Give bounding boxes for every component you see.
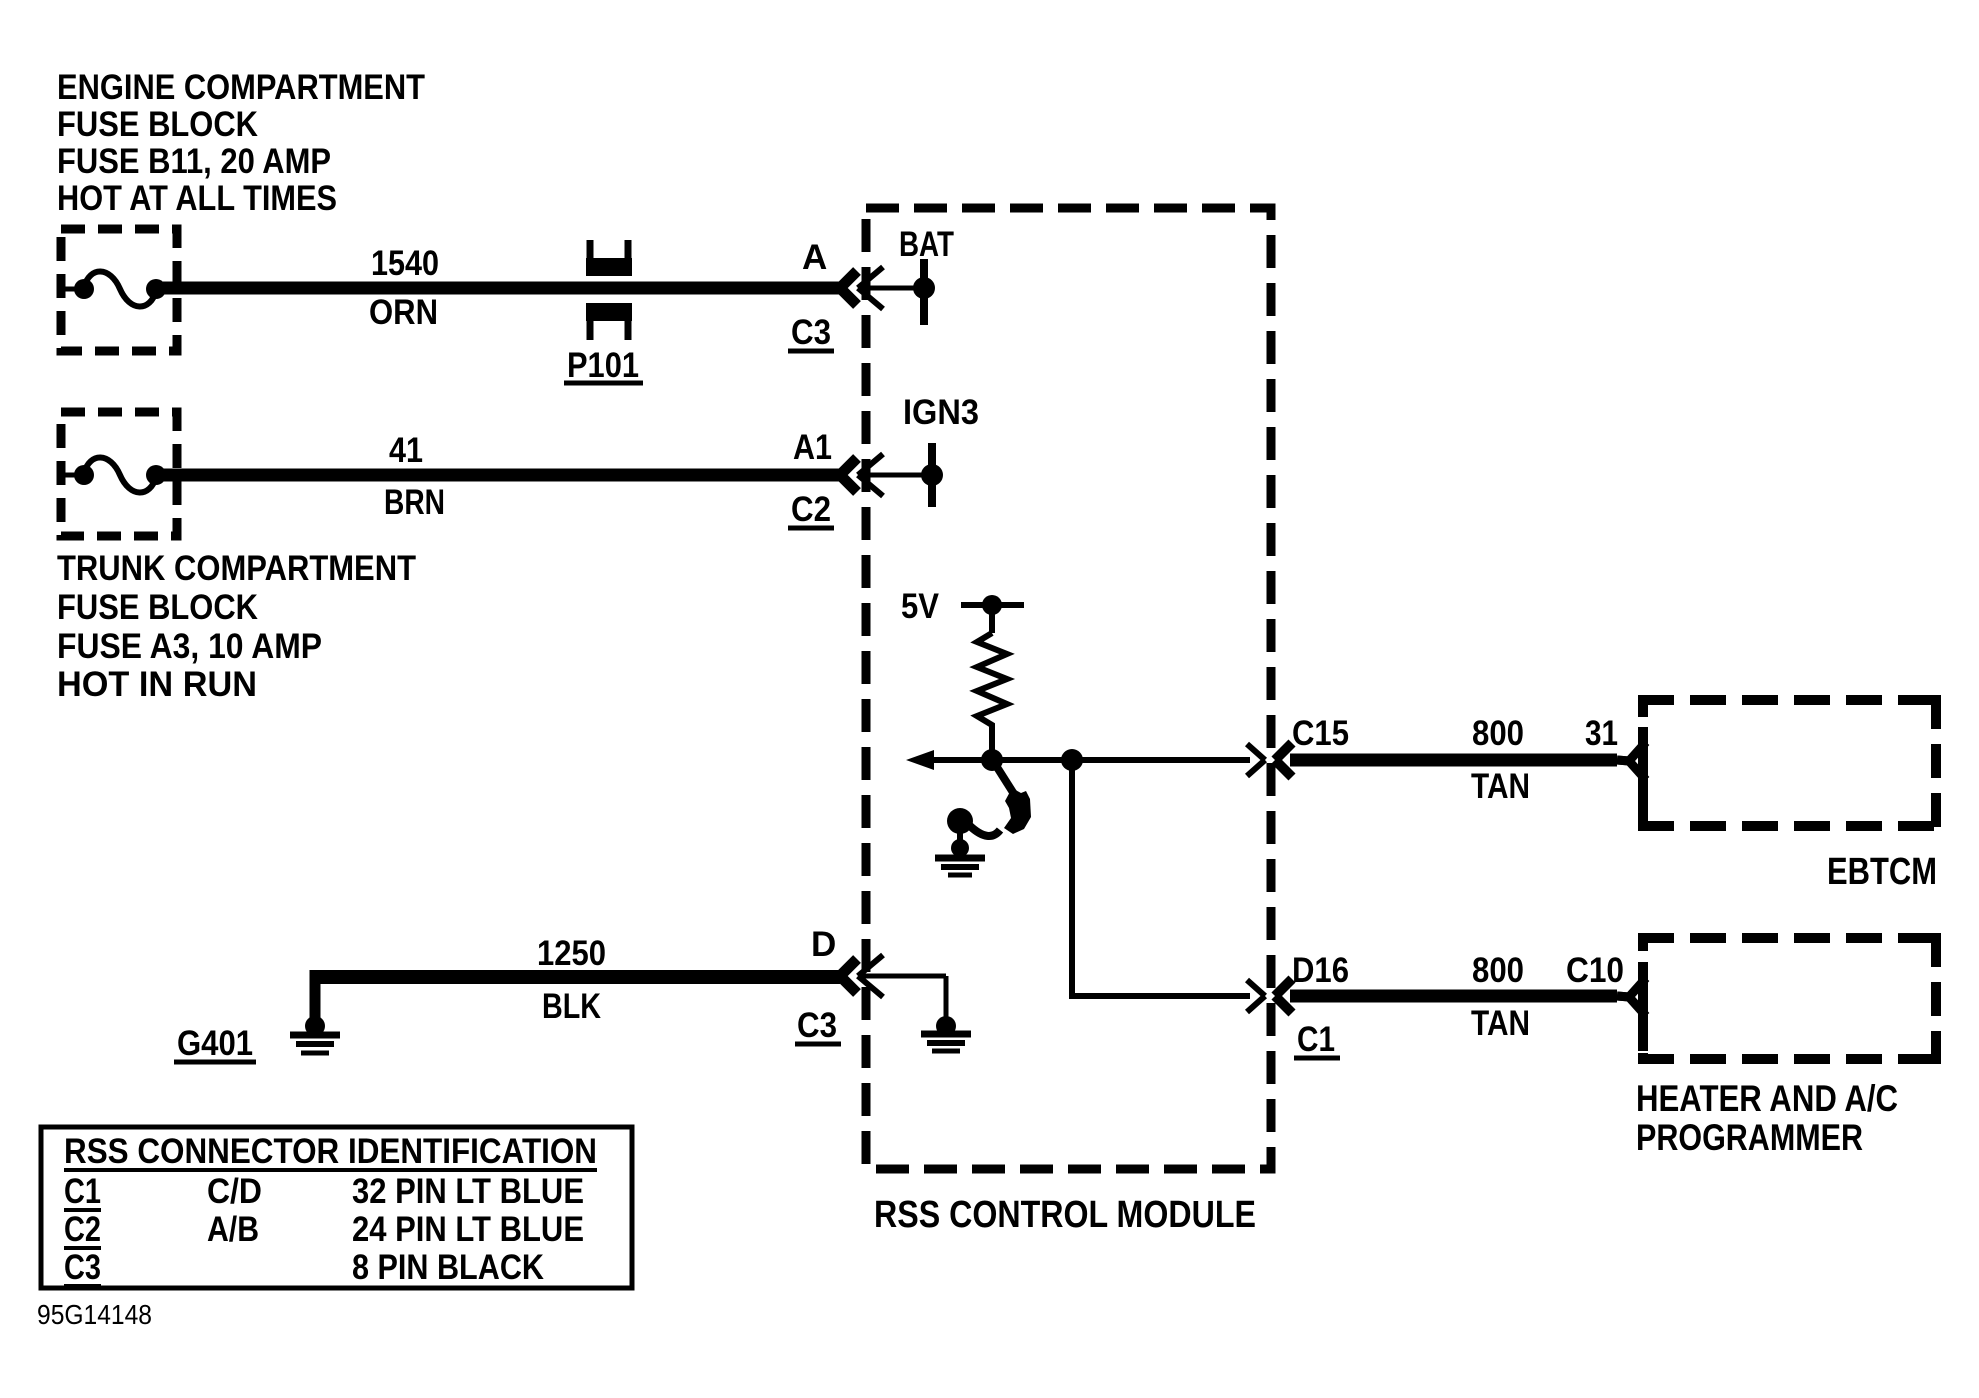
svg-text:41: 41 xyxy=(389,431,423,470)
svg-text:P101: P101 xyxy=(567,346,639,385)
svg-text:BLK: BLK xyxy=(542,987,601,1026)
note: engine compartment fuse text xyxy=(57,68,425,218)
wire 800 TAN (to EBTCM) xyxy=(1290,754,1617,767)
connector pin C15 at module xyxy=(1247,743,1292,777)
heater and A/C programmer dashed box xyxy=(1638,933,1941,1064)
svg-text:IGN3: IGN3 xyxy=(903,393,979,432)
svg-text:PROGRAMMER: PROGRAMMER xyxy=(1636,1117,1863,1158)
svg-text:TRUNK COMPARTMENT: TRUNK COMPARTMENT xyxy=(57,549,416,588)
resistor (pull-up) xyxy=(977,605,1007,760)
fuse block B11 dashed box xyxy=(61,229,177,351)
svg-text:ENGINE COMPARTMENT: ENGINE COMPARTMENT xyxy=(57,68,425,107)
node IGN3 xyxy=(921,443,943,507)
svg-text:A: A xyxy=(802,238,827,277)
wire 1540 ORN xyxy=(163,282,840,295)
svg-text:C/D: C/D xyxy=(207,1172,262,1211)
fuse block A3 dashed box xyxy=(61,412,177,536)
svg-text:FUSE A3, 10 AMP: FUSE A3, 10 AMP xyxy=(57,627,322,666)
svg-text:BRN: BRN xyxy=(384,483,445,522)
note: trunk compartment fuse text xyxy=(57,549,416,704)
svg-text:32 PIN LT BLUE: 32 PIN LT BLUE xyxy=(352,1172,584,1211)
ground G401 xyxy=(290,1016,340,1053)
svg-text:C3: C3 xyxy=(64,1248,101,1287)
svg-text:1540: 1540 xyxy=(371,244,439,283)
wire 800 TAN (to programmer) xyxy=(1290,990,1617,1003)
RSS control module dashed box xyxy=(866,208,1271,1169)
svg-text:HOT AT ALL TIMES: HOT AT ALL TIMES xyxy=(57,179,337,218)
svg-text:TAN: TAN xyxy=(1471,1004,1530,1043)
svg-text:C2: C2 xyxy=(64,1210,101,1249)
svg-text:800: 800 xyxy=(1472,714,1524,753)
connector pin A1 at module xyxy=(840,454,932,496)
svg-text:D16: D16 xyxy=(1292,951,1349,990)
sensor wiper arrow xyxy=(995,764,1031,834)
svg-text:BAT: BAT xyxy=(899,225,954,264)
signal line with left arrow xyxy=(906,750,1250,770)
EBTCM dashed box xyxy=(1638,695,1941,831)
RSS connector identification table xyxy=(41,1127,632,1288)
fuse A3 symbol xyxy=(61,457,166,492)
connector pin A at module xyxy=(840,267,924,309)
wiper contact curl xyxy=(947,808,1000,836)
connector P101 symbol xyxy=(586,240,632,340)
svg-text:5V: 5V xyxy=(901,587,940,626)
wire 41 BRN xyxy=(163,469,840,482)
svg-text:800: 800 xyxy=(1472,951,1524,990)
svg-text:C3: C3 xyxy=(791,313,831,352)
ground (sensor wiper) xyxy=(935,832,985,875)
svg-text:C3: C3 xyxy=(797,1006,837,1045)
svg-text:FUSE BLOCK: FUSE BLOCK xyxy=(57,105,258,144)
svg-text:C15: C15 xyxy=(1292,714,1349,753)
svg-text:TAN: TAN xyxy=(1471,767,1530,806)
svg-text:C1: C1 xyxy=(64,1172,101,1211)
svg-text:C2: C2 xyxy=(791,490,831,529)
node BAT xyxy=(913,259,935,325)
svg-text:A1: A1 xyxy=(793,428,832,467)
svg-text:A/B: A/B xyxy=(207,1210,259,1249)
svg-text:1250: 1250 xyxy=(537,934,606,973)
connector pin D at module xyxy=(840,955,946,997)
svg-text:8 PIN BLACK: 8 PIN BLACK xyxy=(352,1248,544,1287)
svg-text:HOT IN RUN: HOT IN RUN xyxy=(57,665,257,704)
svg-text:C1: C1 xyxy=(1297,1020,1335,1059)
svg-text:C10: C10 xyxy=(1566,951,1624,990)
wire 1250 BLK xyxy=(315,970,840,1018)
svg-text:RSS CONNECTOR IDENTIFICATION: RSS CONNECTOR IDENTIFICATION xyxy=(64,1132,597,1171)
node 5V xyxy=(961,595,1024,615)
svg-text:D: D xyxy=(811,925,836,964)
svg-text:EBTCM: EBTCM xyxy=(1827,851,1937,893)
svg-text:G401: G401 xyxy=(177,1024,253,1063)
connector pin D16 at module xyxy=(1247,979,1292,1013)
junction node at resistor xyxy=(981,749,1003,771)
svg-text:31: 31 xyxy=(1585,714,1618,753)
svg-text:95G14148: 95G14148 xyxy=(37,1299,152,1330)
label HEATER AND A/C PROGRAMMER xyxy=(1636,1078,1898,1158)
svg-text:RSS CONTROL MODULE: RSS CONTROL MODULE xyxy=(874,1194,1256,1236)
svg-text:24 PIN LT BLUE: 24 PIN LT BLUE xyxy=(352,1210,584,1249)
svg-text:ORN: ORN xyxy=(369,293,438,332)
fuse B11 symbol xyxy=(61,271,166,306)
connector pin 31 at EBTCM xyxy=(1617,727,1646,816)
svg-text:FUSE BLOCK: FUSE BLOCK xyxy=(57,588,258,627)
svg-text:FUSE B11, 20 AMP: FUSE B11, 20 AMP xyxy=(57,142,331,181)
branch wire to D16 xyxy=(1072,760,1250,996)
connector pin C10 at programmer xyxy=(1617,962,1646,1051)
svg-text:HEATER AND A/C: HEATER AND A/C xyxy=(1636,1078,1898,1119)
internal ground at pin D xyxy=(921,976,971,1051)
junction node at branch xyxy=(1061,749,1083,771)
